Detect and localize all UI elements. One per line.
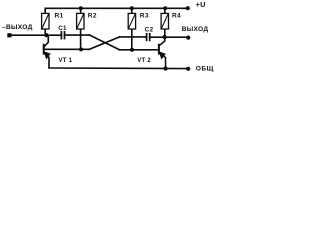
svg-text:VT 1: VT 1 bbox=[59, 58, 73, 64]
svg-text:R4: R4 bbox=[172, 13, 181, 20]
svg-text:R2: R2 bbox=[88, 13, 97, 20]
svg-text:ВЫХОД: ВЫХОД bbox=[182, 26, 209, 33]
svg-text:VT 2: VT 2 bbox=[137, 58, 151, 64]
svg-text:C2: C2 bbox=[145, 26, 154, 33]
svg-text:R3: R3 bbox=[140, 13, 149, 20]
svg-text:–ВЫХОД: –ВЫХОД bbox=[2, 24, 33, 31]
svg-text:+U: +U bbox=[196, 0, 206, 9]
svg-text:R1: R1 bbox=[55, 13, 64, 20]
svg-text:C1: C1 bbox=[58, 25, 67, 32]
svg-text:ОБЩ: ОБЩ bbox=[196, 66, 214, 73]
